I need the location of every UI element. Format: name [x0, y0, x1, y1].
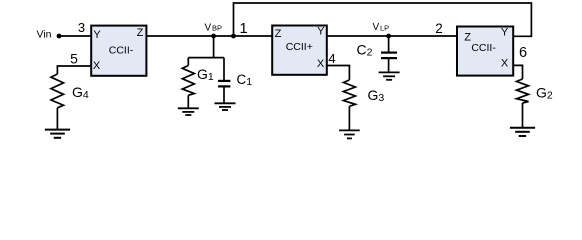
svg-text:CCII-: CCII-: [109, 44, 134, 56]
wire G2 to ground: [522, 103, 524, 128]
capacitor C1: [218, 81, 230, 87]
svg-text:V: V: [205, 22, 212, 33]
op-amp U3 CCII- body: [457, 26, 513, 75]
wire X2 to G3: [327, 66, 350, 81]
wire C2 to ground: [388, 58, 390, 72]
ground under G4: [45, 130, 70, 138]
op-amp U1 CCII- body: [91, 26, 146, 76]
svg-text:X: X: [317, 58, 325, 70]
svg-text:Z: Z: [275, 28, 282, 40]
resistor G1: [182, 66, 194, 96]
svg-text:Vin: Vin: [37, 29, 52, 41]
wire X3 to G2: [513, 65, 523, 79]
resistor G3: [343, 80, 355, 106]
wire G1 to ground: [187, 95, 189, 108]
resistor G4: [51, 74, 64, 108]
wire G3 to ground: [348, 106, 350, 130]
svg-text:3: 3: [78, 20, 85, 35]
svg-text:CCII+: CCII+: [286, 41, 313, 53]
svg-text:CCII-: CCII-: [471, 42, 496, 54]
op-amp U2 CCII+ body: [272, 25, 327, 75]
node Vin dot: [57, 34, 62, 39]
svg-text:LP: LP: [380, 23, 389, 32]
svg-text:Y: Y: [317, 25, 325, 37]
ground under C1: [215, 103, 236, 110]
wire Y2 to Z3: [327, 35, 457, 37]
ground under G2: [510, 128, 535, 136]
wire C1 to ground: [223, 86, 225, 103]
resistor G2: [517, 79, 529, 103]
wire Z1 to Z2: [146, 35, 272, 37]
node VBP dot: [211, 34, 216, 39]
svg-text:X: X: [93, 60, 101, 72]
svg-text:Z: Z: [464, 32, 471, 44]
svg-text:Y: Y: [93, 29, 101, 41]
wire VBP down to bar: [188, 36, 224, 58]
capacitor C2: [381, 53, 397, 59]
wire Y3 feedback to node 1: [234, 3, 532, 36]
wire X1 to G4: [57, 66, 91, 74]
node VLP dot: [386, 34, 391, 39]
ground under C2: [379, 72, 400, 79]
svg-text:1: 1: [239, 20, 247, 37]
ground under G3: [339, 130, 360, 138]
wire G4 to ground: [56, 108, 58, 130]
ground under G1: [178, 108, 199, 115]
junction dot feedback: [231, 34, 236, 39]
svg-text:X: X: [501, 57, 509, 69]
svg-text:Y: Y: [501, 26, 509, 38]
svg-text:Z: Z: [137, 27, 144, 39]
svg-text:2: 2: [435, 21, 443, 36]
wire VLP to C2: [388, 36, 390, 52]
wire bar to G1: [187, 58, 189, 66]
svg-text:V: V: [373, 22, 380, 33]
wire Vin to Y of U1: [59, 35, 91, 37]
svg-text:4: 4: [328, 51, 335, 66]
wire bar to C1: [223, 58, 225, 81]
svg-text:6: 6: [519, 45, 527, 61]
svg-text:BP: BP: [212, 24, 222, 33]
svg-text:5: 5: [70, 50, 78, 66]
